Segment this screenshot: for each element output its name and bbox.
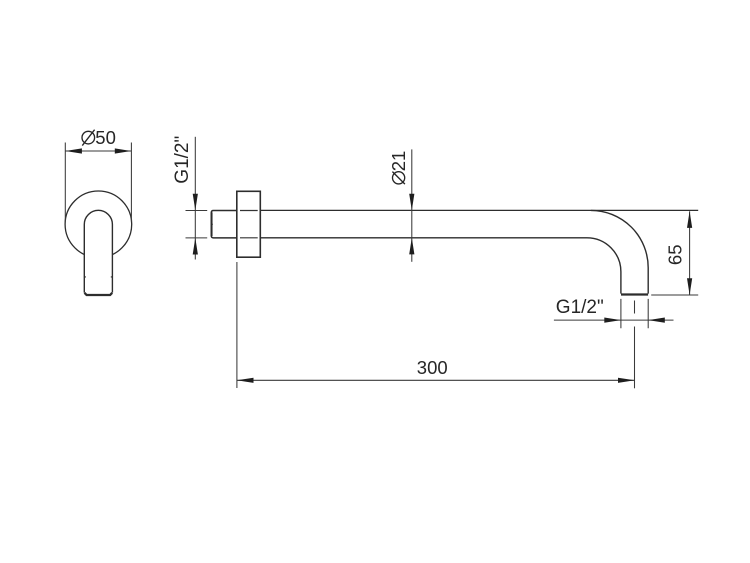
dimension 65: top arrowhead: [687, 211, 692, 228]
label Ø50: diameter symbol: [82, 130, 95, 146]
dimension G1/2" (wall thread): upper arrowhead: [193, 194, 198, 211]
dimension 65: bottom arrowhead: [687, 278, 692, 295]
dimension G1/2" (outlet): left arrowhead: [604, 318, 621, 323]
label Ø21: diameter symbol (rotated): [392, 172, 405, 185]
tube side tick marks: [84, 276, 112, 278]
tube edges through flange: [240, 211, 258, 238]
dimension G1/2" (outlet): extension lines: [621, 299, 648, 328]
dimension Ø50: extension lines: [65, 143, 131, 222]
dimension 300: dimension line: [237, 379, 635, 381]
tube end cap (front view, chamfered thick bottom): [85, 293, 113, 295]
stub left edge tick: [211, 223, 213, 225]
dimension 300: right arrowhead: [618, 378, 635, 383]
dimension Ø50: right arrowhead: [115, 148, 132, 153]
dimension Ø21: dimension line: [411, 149, 413, 261]
dimension 65: dimension line: [689, 211, 691, 295]
svg-text:21: 21: [388, 151, 409, 172]
dimension 300: left arrowhead: [237, 378, 254, 383]
svg-text:G1/2": G1/2": [172, 136, 193, 184]
svg-text:50: 50: [95, 127, 116, 148]
outlet centerline (dash): [634, 301, 636, 314]
dimension 65: bottom extension line: [651, 294, 698, 296]
dimension G1/2" (outlet): right arrowhead: [648, 318, 665, 323]
arm tube top outline: [260, 209, 698, 211]
dimension G1/2" (wall thread): extension lines: [186, 211, 208, 238]
dimension Ø50: left arrowhead: [65, 148, 82, 153]
dimension Ø21: lower arrowhead: [409, 238, 414, 255]
svg-text:65: 65: [665, 245, 686, 266]
dimension G1/2" (outlet): dimension line (continuous): [554, 319, 674, 321]
svg-text:G1/2": G1/2": [556, 297, 604, 318]
wall flange circle: [65, 191, 132, 258]
dimension Ø50: dimension line: [65, 150, 131, 152]
svg-text:300: 300: [417, 357, 448, 378]
wall-side threaded stub G1/2: [211, 211, 237, 238]
wall flange (escutcheon) rectangle: [237, 191, 260, 257]
stub left edge (thicker): [211, 212, 213, 236]
dimension 300: left extension line: [236, 262, 238, 388]
outlet centerline extension to 300 dimension: [634, 327, 636, 389]
dimension G1/2" (wall thread): dimension line: [194, 137, 196, 260]
dimension G1/2" (wall thread): lower arrowhead: [193, 238, 198, 255]
dimension Ø21: upper arrowhead: [409, 194, 414, 211]
shower arm tube (front view, rounded top, occludes circle): [84, 210, 112, 292]
arm tube outer bend: [591, 210, 648, 293]
arm tube bottom outline with inner bend: [260, 238, 621, 294]
outlet end cap (thick): [621, 293, 648, 295]
